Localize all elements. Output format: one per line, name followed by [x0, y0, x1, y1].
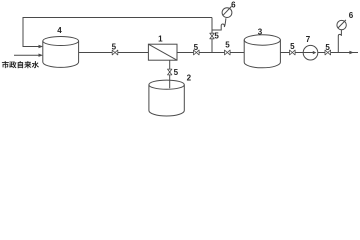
wire pump to outlet — [318, 52, 358, 54]
valve 5 main before tank3 — [225, 50, 231, 55]
svg-text:3: 3 — [258, 27, 263, 36]
wire inlet line 市政自来水 — [14, 54, 40, 56]
valve 5 after tank3 — [290, 50, 296, 55]
arrow into tank4 inlet — [39, 54, 44, 57]
valve 5 riser vertical — [210, 33, 214, 39]
tank 3 — [244, 35, 280, 68]
valve 5 inlet-main — [112, 50, 118, 55]
valve 5 after filter — [194, 50, 200, 55]
tank 4 — [43, 37, 79, 68]
valve 5 drain vertical — [168, 69, 172, 75]
svg-text:5: 5 — [174, 68, 179, 77]
wire tank3 to pump — [280, 52, 303, 54]
arrow into tank4 recirc — [39, 45, 44, 48]
wire recirculation top loop — [23, 18, 212, 47]
svg-text:5: 5 — [290, 42, 295, 51]
svg-text:1: 1 — [158, 35, 163, 44]
valve 5 after pump — [325, 50, 331, 55]
svg-text:4: 4 — [57, 26, 62, 35]
pump 7 — [303, 45, 318, 60]
svg-text:6: 6 — [349, 11, 354, 20]
gauge 6 right — [337, 20, 346, 30]
wire drain filter to tank2 — [169, 60, 171, 88]
svg-text:2: 2 — [187, 74, 192, 83]
label 市政自来水 — [2, 61, 39, 68]
wire main line tank4 to filter — [79, 52, 148, 54]
wire gauge1 branch pigtail — [212, 18, 226, 30]
filter 1 — [148, 44, 177, 60]
svg-text:5: 5 — [325, 43, 330, 52]
tank 2 — [149, 80, 184, 116]
gauge 6 left — [222, 6, 232, 17]
arrow outlet end — [349, 51, 353, 55]
wire filter to tank3 — [177, 52, 244, 54]
svg-text:6: 6 — [231, 1, 236, 10]
svg-text:5: 5 — [214, 32, 219, 41]
svg-text:5: 5 — [112, 43, 117, 52]
svg-text:5: 5 — [194, 43, 199, 52]
svg-text:5: 5 — [225, 40, 230, 49]
wire riser gauge2 pigtail — [338, 30, 341, 53]
svg-text:7: 7 — [306, 35, 311, 44]
wire riser gauge1 — [211, 18, 213, 53]
